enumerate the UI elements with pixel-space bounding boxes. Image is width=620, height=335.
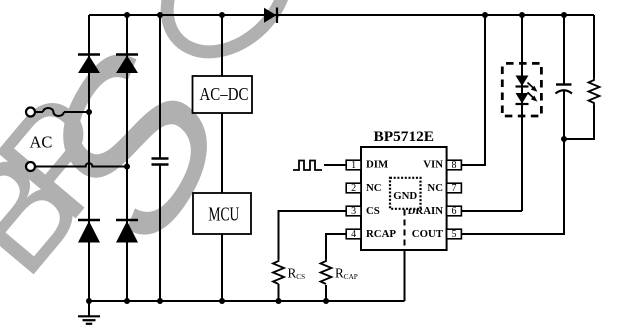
svg-text:RCS: RCS — [288, 265, 306, 281]
wire pin 4 RCAP to RCAP resistor — [326, 234, 346, 259]
svg-text:COUT: COUT — [412, 228, 444, 240]
node top rail / output cap — [561, 12, 567, 18]
rectifier output diode D5 — [264, 8, 277, 24]
LED2 emission arrow — [528, 92, 538, 101]
ground — [78, 301, 100, 324]
pin 8 box — [447, 160, 462, 170]
svg-text:7: 7 — [452, 183, 457, 194]
svg-text:3: 3 — [351, 206, 356, 217]
svg-text:RCAP: RCAP — [335, 265, 358, 281]
wire pin 8 VIN to top rail — [461, 15, 485, 165]
node ground rail / MCU — [219, 298, 225, 304]
bridge diode D2 — [116, 55, 138, 74]
node top rail / AC-DC — [219, 12, 225, 18]
wire pin 5 COUT — [461, 139, 564, 234]
svg-text:BP5712E: BP5712E — [374, 128, 435, 145]
svg-text:8: 8 — [452, 160, 457, 171]
node COUT net — [561, 136, 567, 142]
wire RCAP resistor to ground rail — [325, 285, 327, 301]
node ground rail / bridge1 — [86, 298, 92, 304]
node top rail / branch2 — [124, 12, 130, 18]
svg-text:6: 6 — [452, 206, 457, 217]
wire output resistor bottom — [564, 105, 594, 139]
node AC neutral / bridge — [124, 164, 130, 170]
svg-text:AC: AC — [30, 132, 53, 151]
LED2 — [516, 93, 529, 104]
AC terminal top — [26, 108, 35, 117]
svg-text:DIM: DIM — [366, 159, 388, 171]
resistor RCAP — [321, 259, 332, 284]
input capacitor C1 — [152, 159, 169, 165]
wire AC neutral input with hop — [35, 163, 127, 166]
AC terminal bottom — [26, 162, 35, 171]
block MCU — [193, 193, 251, 234]
wire output cap branch upper — [563, 15, 565, 84]
wire AC-DC branch top — [221, 15, 223, 76]
GND pad dashed lead — [404, 210, 406, 251]
output capacitor C2 bottom curved plate — [556, 90, 573, 93]
node top rail / LED branch — [519, 12, 525, 18]
watermark letter O — [143, 0, 310, 76]
pin 5 box — [447, 229, 462, 239]
bridge diode D1 — [78, 55, 100, 74]
wire input cap branch lower — [159, 165, 161, 302]
LED string dashed enclosure — [502, 63, 541, 116]
wire AC live to bridge — [64, 111, 89, 113]
fuse F1 — [43, 108, 64, 116]
wire RCS to ground rail — [278, 284, 280, 301]
bridge diode D3 — [78, 220, 100, 243]
wire AC-DC to MCU — [221, 113, 223, 193]
block AC-DC — [193, 76, 253, 113]
node ground rail / bridge2 — [124, 298, 130, 304]
wire pin 3 CS to RCS — [279, 211, 347, 259]
wire bottom ground rail — [89, 300, 405, 302]
wire input cap branch upper — [159, 15, 161, 159]
wire bridge branch 1 vertical — [88, 15, 90, 301]
svg-text:5: 5 — [452, 229, 457, 240]
resistor RCS — [273, 259, 284, 284]
wire MCU to ground rail — [221, 234, 223, 301]
wire IC GND to ground rail — [404, 250, 406, 301]
svg-text:NC: NC — [366, 182, 382, 194]
DIM pulse waveform — [293, 161, 322, 171]
wire output resistor branch — [593, 15, 595, 78]
wire bridge branch 2 vertical — [126, 15, 128, 301]
svg-text:1: 1 — [351, 160, 356, 171]
svg-text:4: 4 — [351, 229, 356, 240]
wire DIM pulse input to pin 1 — [324, 164, 346, 166]
wire AC live input — [35, 111, 43, 113]
pin 6 box — [447, 206, 462, 216]
wire top rail — [89, 14, 594, 16]
node ground rail / RCAP — [323, 298, 329, 304]
node ground rail / input cap — [157, 298, 163, 304]
LED1 emission arrow — [528, 83, 538, 92]
output resistor R1 — [589, 78, 600, 105]
node top rail / input cap — [157, 12, 163, 18]
bridge diode D4 — [116, 220, 138, 243]
svg-text:VIN: VIN — [423, 159, 443, 171]
svg-text:CS: CS — [366, 205, 380, 217]
svg-text:RCAP: RCAP — [366, 228, 396, 240]
svg-text:2: 2 — [351, 183, 356, 194]
GND exposed pad — [390, 178, 421, 209]
LED1 — [516, 76, 529, 87]
pin 2 box — [346, 183, 361, 193]
output capacitor C2 top plate — [556, 83, 572, 85]
svg-text:NC: NC — [427, 182, 443, 194]
svg-text:MCU: MCU — [208, 204, 239, 225]
pin 1 box — [346, 160, 361, 170]
node top rail / VIN riser — [482, 12, 488, 18]
op-amp U1 BP5712E body — [361, 147, 447, 250]
wire output cap branch lower — [563, 91, 565, 139]
svg-text:AC–DC: AC–DC — [200, 84, 249, 104]
pin 7 box — [447, 183, 462, 193]
node AC live / bridge — [86, 109, 92, 115]
pin 3 box — [346, 206, 361, 216]
node ground rail / RCS — [276, 298, 282, 304]
wire LED string branch — [521, 15, 523, 211]
svg-text:GND: GND — [393, 190, 417, 202]
wire pin 6 DRAIN — [461, 210, 522, 212]
pin 4 box — [346, 229, 361, 239]
